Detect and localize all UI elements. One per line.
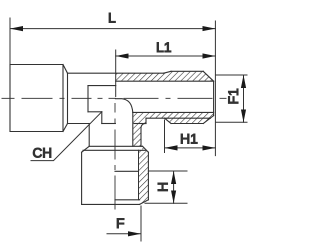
top thread runout slant	[164, 71, 171, 73]
L dimension	[9, 18, 11, 64]
svg-text:L: L	[108, 10, 116, 26]
bottom right chamfer	[203, 116, 213, 124]
svg-text:L1: L1	[156, 39, 172, 55]
hex left edge	[81, 152, 83, 204]
branch neck bore wall	[132, 112, 134, 146]
run top OD line	[68, 72, 164, 74]
svg-text:F1: F1	[225, 88, 241, 105]
hex top front edge	[89, 145, 142, 147]
H1 extension from runout	[164, 120, 166, 153]
groove step	[145, 118, 147, 123]
outer fillet branch neck right	[141, 123, 146, 146]
hatch: bottom wall band + branch neck wall	[133, 112, 214, 146]
right face	[213, 81, 215, 115]
socket chamfer bottom	[63, 124, 68, 132]
bottom runout slant	[165, 118, 172, 123]
bottom thread root line	[146, 117, 211, 119]
socket internal thread lines	[88, 85, 116, 87]
top thread crest line	[171, 70, 203, 72]
branch bore wall line	[138, 150, 140, 200]
hex chamfer top-left	[82, 146, 90, 152]
left socket body	[10, 65, 63, 132]
junction fillet arc (bore)	[116, 99, 133, 113]
run bottom OD line left	[68, 123, 90, 125]
svg-text:F: F	[116, 215, 125, 231]
H1 dimension	[165, 147, 216, 149]
bottom crest line	[171, 123, 203, 125]
hex right edge	[147, 152, 149, 200]
svg-text:H1: H1	[180, 131, 198, 147]
hex top rear edge	[83, 149, 146, 151]
svg-text:CH: CH	[33, 146, 53, 161]
OD bottom over groove-left	[134, 123, 146, 125]
svg-text:H: H	[155, 182, 171, 192]
hex bottom chamfer right	[140, 200, 149, 205]
socket chamfer top	[63, 65, 68, 74]
thread start / L1 extension vertical	[115, 50, 117, 97]
hex bottom face	[82, 203, 140, 205]
hex bottom rear edge / internal chamfer	[115, 199, 140, 201]
F1 dimension	[216, 74, 248, 76]
CH leader	[31, 112, 102, 161]
centerline branch axis	[114, 104, 116, 210]
hex chamfer top-right	[143, 146, 149, 152]
top right chamfer	[203, 71, 213, 81]
H dimension	[148, 170, 187, 172]
neck face vertical	[67, 73, 69, 123]
centerline run axis	[2, 97, 226, 99]
L1 dimension	[116, 55, 216, 57]
run bottom OD centre part	[102, 123, 116, 125]
run bore bottom line	[133, 111, 214, 113]
branch internal thread end	[115, 170, 139, 172]
branch neck left wall	[88, 124, 90, 147]
F dimension	[140, 206, 142, 241]
top thread root line	[116, 80, 214, 82]
hatch: hex wall right section	[139, 146, 149, 204]
hatch: top thread band	[116, 71, 214, 81]
